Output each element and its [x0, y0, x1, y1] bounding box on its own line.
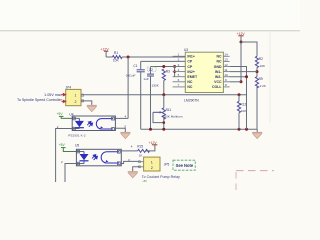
svg-text:NC: NC [187, 80, 193, 84]
capacitor C1 [126, 61, 145, 77]
wire C2/R3 node to IC pin 3 [151, 66, 186, 68]
svg-text:+5V: +5V [142, 179, 147, 183]
wire R15 to +12V [146, 145, 155, 151]
svg-text:R11: R11 [166, 108, 172, 112]
wire R1 to IC pin 1 [122, 56, 185, 58]
junction R12 on output net [238, 93, 241, 96]
resistor R1 [113, 51, 123, 62]
svg-text:GND: GND [214, 65, 222, 69]
sheet top border line [0, 30, 300, 32]
port arrow 1.05V max [62, 93, 66, 95]
IC left pin numbers [178, 53, 180, 88]
svg-text:NC: NC [216, 60, 222, 64]
wire R9 bottom to ground rail [256, 87, 258, 129]
ground rail wire [141, 128, 258, 130]
svg-text:10K: 10K [260, 64, 266, 68]
junction pin 9 [240, 80, 243, 83]
note box See Note [173, 160, 195, 170]
svg-text:1: 1 [75, 93, 77, 97]
svg-text:R3: R3 [166, 69, 170, 73]
IC left pin stubs 1-7 [173, 56, 186, 87]
svg-text:13: 13 [224, 58, 228, 62]
svg-text:2: 2 [75, 100, 77, 104]
port arrow controller [62, 100, 66, 102]
resistor R3 [152, 69, 171, 88]
junction pin10 column [245, 75, 248, 78]
junction R11 wiper [163, 121, 166, 124]
svg-text:10K: 10K [113, 59, 120, 63]
resistor R9 [255, 77, 267, 88]
svg-text:R1: R1 [114, 51, 118, 55]
svg-text:U5: U5 [75, 144, 79, 148]
svg-text:R2: R2 [259, 57, 263, 61]
svg-text:CP: CP [187, 60, 193, 64]
dashed highlight corner bottom right [236, 171, 274, 191]
svg-text:11: 11 [224, 68, 227, 72]
wire C1 bottom to ground rail [140, 72, 142, 129]
resistor R2 [255, 56, 266, 68]
svg-text:1.05V max: 1.05V max [44, 93, 62, 97]
svg-text:C2: C2 [149, 68, 153, 72]
wire pin 10 to pin12 column [230, 76, 247, 78]
wire R3 bottom to output net [163, 80, 165, 94]
svg-text:14: 14 [224, 53, 228, 57]
svg-text:IN1-: IN1- [215, 70, 222, 74]
svg-text:10K: 10K [241, 109, 247, 113]
svg-text:C1: C1 [133, 64, 137, 68]
op IC U3 LM2907N [184, 48, 223, 103]
IC left pin names [187, 55, 198, 90]
svg-text:COLL: COLL [212, 85, 222, 89]
svg-text:See Note: See Note [176, 163, 194, 168]
svg-text:LM2907N: LM2907N [184, 98, 199, 102]
svg-text:R9: R9 [259, 77, 263, 81]
wire U4 pin3 to ground [115, 128, 125, 132]
IC right pin stubs 14-8 [223, 56, 229, 87]
wire JP5 pin2 to ground [133, 167, 140, 172]
svg-text:+5V: +5V [57, 112, 64, 116]
power +12V (left) [100, 47, 109, 57]
junction C2 on rail [149, 128, 152, 131]
wire R12 bottom to rail [238, 113, 240, 130]
svg-text:R15: R15 [137, 145, 143, 149]
junction pin4 bus [173, 70, 176, 73]
optocoupler U4 [68, 113, 115, 138]
wire pin 9 stub to column [230, 81, 241, 83]
wire U4 pin2 out left and down [56, 129, 73, 183]
wire U5 pin2 out left and down [65, 164, 76, 183]
svg-text:IN2-: IN2- [215, 75, 222, 79]
IC right pin numbers [224, 53, 228, 88]
svg-text:VCC: VCC [214, 80, 222, 84]
wire +12V down to pin 9 VCC [240, 42, 242, 82]
junction +12V node [240, 41, 243, 44]
junction node pin1/R1 [127, 56, 130, 59]
svg-text:NC: NC [187, 85, 193, 89]
wire U4 pin4 to pullup column [115, 117, 128, 119]
svg-text:NC: NC [216, 55, 222, 59]
junction R11 on rail [162, 128, 165, 131]
wire pin 12 GND to ground rail [230, 67, 247, 130]
wire R11 bottom to ground rail [163, 117, 165, 129]
capacitor C2 [143, 67, 156, 82]
power +12V (bottom) [149, 141, 158, 145]
svg-text:R12: R12 [240, 102, 246, 106]
resistor R12 [237, 95, 247, 113]
svg-text:4-50K Multiturn: 4-50K Multiturn [162, 114, 183, 118]
connector JP4 [66, 86, 84, 106]
svg-text:U3: U3 [184, 48, 188, 52]
connector JP5 [139, 157, 170, 171]
wire JP4 pin2 to ground [81, 101, 92, 105]
ground symbol JP4 [87, 105, 97, 111]
svg-text:2.2K: 2.2K [260, 84, 267, 88]
sheet right faint border [269, 31, 271, 123]
power +12V (right) [237, 32, 246, 42]
wire U5 pin4 to R15 [121, 150, 137, 152]
svg-text:1: 1 [151, 160, 153, 164]
wire U5 pin3 to JP5 pin1 [121, 161, 139, 163]
wire C1 top to IC pin 2 [141, 60, 186, 62]
power +5V U4 [57, 112, 73, 118]
svg-text:IN2+: IN2+ [187, 70, 195, 74]
resistor R15 [137, 145, 149, 158]
svg-text:2: 2 [151, 166, 153, 170]
wire pin3 to pin4 pin5 bus [174, 67, 176, 77]
svg-text:PS2501 K-2: PS2501 K-2 [68, 133, 86, 137]
power +5V U5 [59, 143, 77, 151]
junction divider node [256, 70, 259, 73]
svg-text:To Spindle Speed Controller: To Spindle Speed Controller [17, 98, 63, 102]
IC right pin names [212, 55, 222, 90]
svg-text:JP5: JP5 [164, 162, 170, 166]
junction R3 top [162, 65, 165, 68]
trimmer R11 [153, 95, 183, 123]
ground symbol rail right [252, 129, 262, 138]
wire C2 bottom to ground rail [150, 76, 152, 129]
wire R2 bottom to divider node [256, 68, 258, 77]
svg-text:12: 12 [224, 63, 228, 67]
junction R3/R11 on output net [162, 93, 165, 96]
svg-text:10: 10 [224, 73, 228, 77]
svg-text:EMET: EMET [187, 75, 198, 79]
svg-text:0.01uF: 0.01uF [126, 74, 136, 78]
wire pin 11 to divider node [230, 71, 257, 73]
svg-text:+5V: +5V [59, 143, 66, 147]
junction pin3 bus [173, 65, 176, 68]
svg-text:1uF: 1uF [143, 77, 148, 81]
ground symbol U4 pin3 [120, 132, 130, 138]
wire junction down to U4 pin 4 [127, 57, 129, 118]
ground symbol JP5 [128, 172, 138, 178]
svg-text:IN1+: IN1+ [187, 55, 195, 59]
junction pin12 column on rail [245, 128, 248, 131]
wire +12V to R1 [106, 56, 112, 58]
wire +12V to R2 top [241, 42, 257, 56]
svg-text:CP: CP [187, 65, 193, 69]
svg-text:To Coolant Pump Relay: To Coolant Pump Relay [142, 175, 180, 179]
wire output net JP4 pin1 across [81, 94, 247, 96]
svg-text:JP4: JP4 [66, 86, 72, 90]
junction R12 on rail [238, 128, 241, 131]
svg-text:330K: 330K [152, 84, 160, 88]
optocoupler U5 [75, 144, 121, 166]
